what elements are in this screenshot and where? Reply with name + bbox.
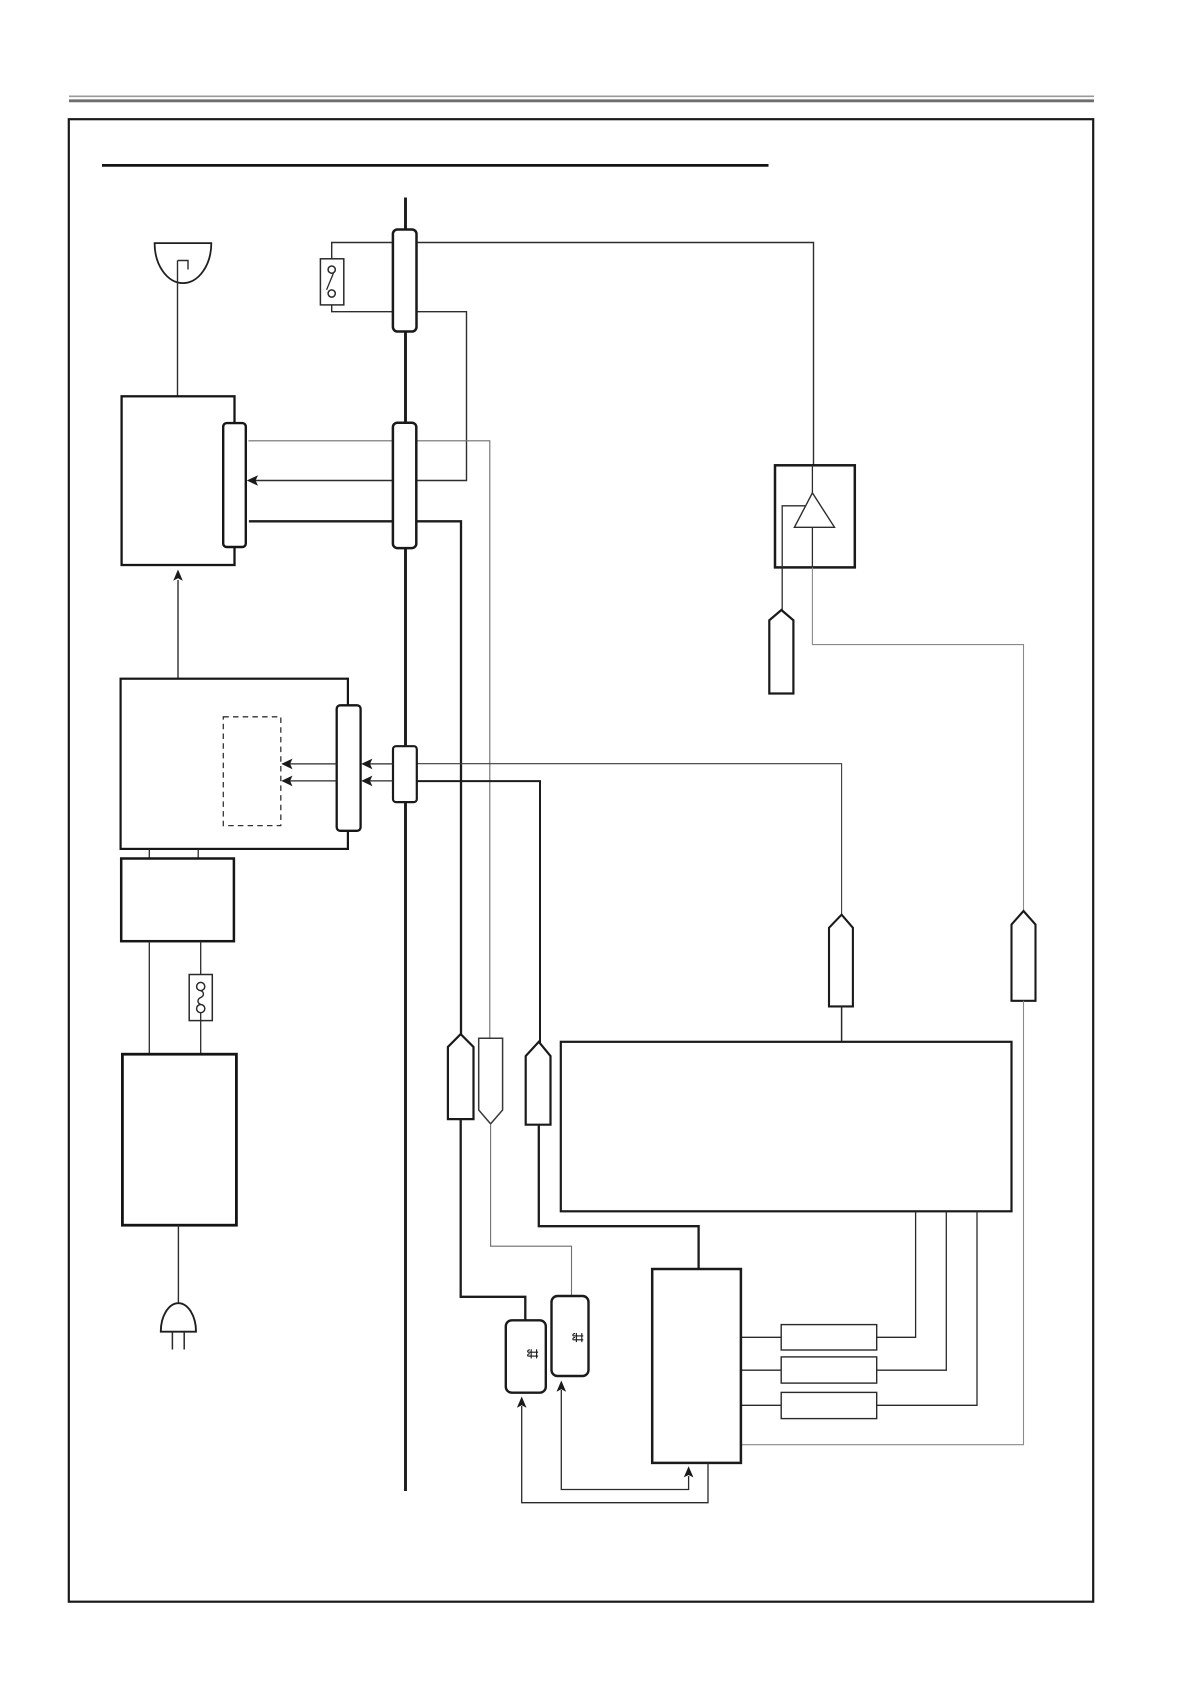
box A (top-left block) [122, 396, 235, 565]
page border frame [69, 119, 1093, 1602]
wire box C to box D (left) [148, 941, 150, 1054]
fuse / thermal switch F1 [189, 975, 212, 1021]
amplifier triangle [794, 493, 834, 527]
feedback wire: ff2 to tall box bottom (arrows both ends) [561, 1390, 688, 1490]
wire pin B to ff2 (gray) [491, 1124, 572, 1297]
box C [121, 859, 234, 942]
arrow wires: CN-B to dashed block (two) [284, 763, 337, 765]
pin P1 (below amplifier) [769, 610, 793, 694]
pin C [526, 1042, 551, 1125]
amplifier box [775, 465, 855, 567]
wire pin A to ff1 (dark) [461, 1119, 526, 1321]
pin 3 (far right) [1012, 911, 1036, 1001]
bell / buzzer symbol [155, 243, 212, 283]
wire fuse F1 to box D [200, 1013, 202, 1054]
power plug symbol [161, 1303, 196, 1349]
ff box 1 [506, 1320, 546, 1392]
relay rect R1 [781, 1325, 877, 1350]
wire pin3 down and left to tall box (gray) [741, 1001, 1024, 1445]
stub wires box B to box C [148, 849, 150, 859]
wire box D to plug [177, 1225, 179, 1303]
title underline [102, 164, 769, 167]
amp output wire (gray) to pin 3 [812, 567, 1023, 912]
big box output wires to relay rects [877, 1211, 916, 1337]
wire box C to fuse F1 [200, 941, 202, 982]
relay rect R2 [781, 1357, 877, 1383]
wire: bus connector P3 to pin C (dark) [416, 781, 540, 1043]
wire+arrow: box B up into box A [177, 580, 179, 679]
arrowhead into CN-A [247, 475, 258, 486]
stub wires tall box to relay rects [741, 1336, 781, 1338]
bus connector P1 [393, 230, 417, 332]
switch S1 (top, with lever) [320, 259, 343, 305]
dashed sub-block inside box B [223, 717, 280, 826]
feedback wire: tall box bottom to ff1 (arrow) [522, 1406, 708, 1503]
connector CN-A on box A right edge [223, 423, 246, 547]
wire: CN-A to pin A (dark) [249, 521, 461, 1035]
top double rule [69, 96, 1094, 101]
pin B (inverted, thin) [479, 1038, 503, 1124]
box D (bottom-left block) [122, 1054, 236, 1225]
wire: switch S1 bottom around to connector CN-A (arrow) [250, 297, 467, 481]
bus (vertical trunk line) [404, 198, 407, 1492]
box B (middle-left block) [121, 679, 348, 849]
big box (wide block) [561, 1042, 1012, 1212]
pin 2 (right middle) [829, 915, 853, 1007]
wire pin C to tall box (dark) [539, 1125, 699, 1269]
connector CN-B on box B right edge [337, 705, 361, 831]
wire: bell to box A [177, 261, 179, 397]
ff box 2 [552, 1296, 589, 1376]
wire: switch S1 top to amplifier (net across bus) [332, 243, 814, 466]
relay rect R3 [781, 1392, 877, 1418]
arrow wires: P3 to CN-B (two) [364, 763, 393, 765]
pin A [448, 1034, 474, 1119]
tall box (driver block) [652, 1269, 741, 1463]
amp inner wires [811, 465, 813, 493]
wire: CN-A to pin B (gray) [248, 441, 489, 1039]
bus connector P3 (small) [393, 746, 417, 802]
bus connector P2 [393, 423, 416, 548]
wire: bus connector P3 to pin 2 [416, 764, 842, 916]
wire pin2 to big box [841, 1006, 843, 1041]
